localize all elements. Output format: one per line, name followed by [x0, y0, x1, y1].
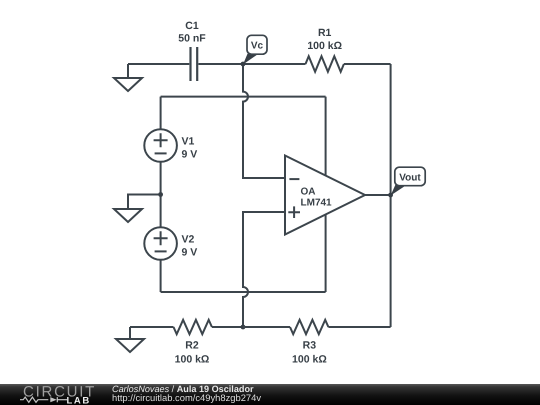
svg-text:100 kΩ: 100 kΩ	[175, 354, 210, 366]
wire: V1 bottom to midpoint node	[160, 162, 162, 195]
CircuitLab logo	[0, 384, 100, 405]
footer bar	[0, 384, 540, 405]
op-amp U1 body	[285, 156, 365, 235]
wire: V+ rail top	[161, 96, 326, 98]
svg-text:V2: V2	[182, 234, 195, 246]
node: V1/V2 midpoint junction	[158, 192, 163, 197]
wire: C1 to node Vc	[198, 63, 243, 65]
wire: op-amp V- pin down to V- rail	[325, 210, 327, 292]
voltage source V1	[144, 129, 177, 162]
resistor R3	[290, 320, 328, 334]
node: R2/R3 junction dot	[241, 325, 246, 330]
svg-text:Vc: Vc	[251, 41, 264, 52]
svg-text:9 V: 9 V	[182, 149, 198, 161]
resistor R2	[174, 320, 212, 334]
net label Vc	[247, 35, 267, 54]
wire: V+ rail down to op-amp V+ pin	[325, 97, 327, 180]
ground (bottom left)	[116, 327, 144, 352]
net label Vout	[395, 167, 425, 186]
wire: V1 top to V+ rail	[160, 97, 162, 130]
svg-text:100 kΩ: 100 kΩ	[292, 354, 327, 366]
wire: bottom ground to R2	[130, 326, 174, 328]
node: Vc junction dot	[241, 62, 246, 67]
wire: junction node to R3	[243, 326, 290, 328]
wire: right feedback rail	[390, 64, 392, 327]
wire: V2 bottom to V- rail	[160, 260, 162, 292]
voltage source V2	[144, 227, 177, 260]
svg-text:R3: R3	[303, 340, 317, 352]
ground (top left)	[114, 64, 142, 91]
svg-text:R2: R2	[185, 340, 199, 352]
wire: R1 to right rail	[344, 63, 391, 65]
wire: midpoint node to ground	[128, 195, 161, 210]
svg-text:LM741: LM741	[301, 198, 333, 209]
op-amp non-inverting input marker	[288, 206, 300, 218]
svg-text:9 V: 9 V	[182, 247, 198, 259]
svg-text:OA: OA	[301, 187, 316, 198]
wire: R2 to junction node	[212, 326, 243, 328]
svg-text:R1: R1	[318, 27, 332, 39]
svg-text:50 nF: 50 nF	[178, 33, 206, 45]
net label Vout pointer	[391, 185, 407, 196]
node: Vout junction dot	[388, 193, 393, 198]
net label Vc pointer	[243, 54, 259, 65]
resistor R1	[306, 56, 344, 72]
wire: non-inverting input to R2/R3 node (with hop)	[243, 212, 285, 327]
svg-text:100 kΩ: 100 kΩ	[307, 40, 342, 52]
ground (middle left)	[114, 209, 142, 222]
wire: node Vc to R1	[243, 63, 306, 65]
footer credit line 2	[112, 393, 261, 402]
op-amp inverting input marker	[289, 178, 299, 180]
svg-text:LAB: LAB	[67, 395, 91, 405]
wire: op-amp output	[365, 194, 391, 196]
wire: V- rail bottom	[161, 291, 326, 293]
wire: R3 to right rail	[328, 326, 390, 328]
wire: top-left ground to C1	[128, 63, 189, 65]
footer credit line 1	[112, 385, 254, 394]
svg-text:Vout: Vout	[399, 172, 421, 183]
wire: midpoint node to V2 top	[160, 195, 162, 228]
svg-text:V1: V1	[182, 136, 195, 148]
svg-text:C1: C1	[185, 20, 199, 32]
wire: inverting input from node Vc (with hop)	[243, 64, 285, 178]
capacitor C1	[191, 47, 198, 81]
